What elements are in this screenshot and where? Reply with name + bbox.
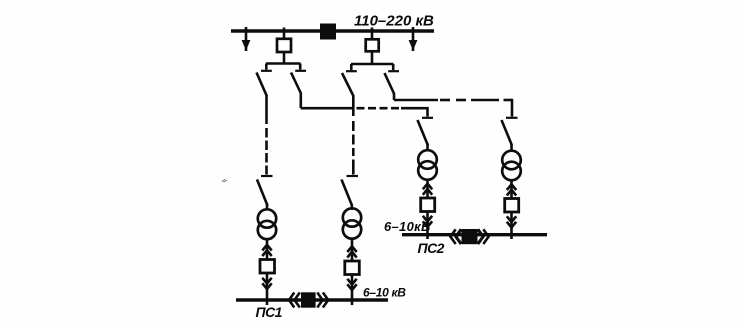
transformer T3 (PS2 left) [418, 150, 437, 180]
drawout contact arrows above breaker Q4 [347, 239, 356, 261]
bus-tie breaker (closed, filled) on HV bus [320, 24, 336, 40]
disconnector QS5 (PS1 left arrival) [257, 176, 273, 210]
drawout contact arrows above breaker Q5 [423, 180, 432, 199]
transformer T1 (PS1 left) [258, 209, 276, 239]
drawout contact arrows below breaker Q5 [423, 212, 432, 240]
svg-text:110–220 кВ: 110–220 кВ [354, 13, 434, 30]
disconnector QS4 (right of Q2) [385, 71, 400, 100]
PS1 LV bus 6-10 kV [236, 298, 388, 301]
scan speck artifact [222, 179, 227, 182]
T-bar node below Q1 [266, 64, 301, 70]
T-bar node below Q2 [351, 64, 394, 70]
disconnector QS1 (left of Q1) [257, 71, 272, 97]
breaker Q1 [277, 28, 291, 64]
breaker Q2 [366, 28, 379, 65]
breaker Q4 (PS1 right, drawout) [345, 261, 360, 275]
disconnector QS2 (right of Q1) [291, 71, 306, 108]
breaker Q5 (PS2 left, drawout) [421, 198, 435, 212]
wire line W4 to PS2 right (dashed overhead line) [394, 99, 512, 117]
svg-text:ПС2: ПС2 [418, 240, 445, 256]
svg-text:6–10кВ: 6–10кВ [384, 219, 431, 234]
wire W1 line to PS1 left (dash-dot overhead line) [265, 96, 268, 175]
svg-text:ПС1: ПС1 [256, 304, 283, 320]
HV bus 110-220 kV [231, 29, 434, 32]
drawout contact arrows below breaker Q3 [262, 273, 271, 305]
drawout contact arrows above breaker Q6 [507, 181, 516, 200]
svg-text:6–10 кВ: 6–10 кВ [363, 286, 406, 300]
drawout contact arrows below breaker Q4 [347, 275, 356, 306]
breaker Q3 (PS1 left, drawout) [260, 260, 275, 274]
bus-section breaker QB1 (closed, drawout) on PS1 bus [289, 292, 328, 307]
transformer T4 (PS2 right) [502, 151, 521, 181]
breaker Q6 (PS2 right, drawout) [505, 199, 519, 213]
feeder arrow right [409, 27, 418, 51]
disconnector QS6 (PS1 right arrival) [342, 176, 359, 210]
disconnector QS3 (left of Q2) [342, 71, 357, 95]
wire line W3 to PS2 left (dashed overhead line) [301, 107, 428, 117]
bus-section breaker QB2 (closed, drawout) on PS2 bus [450, 229, 488, 244]
wire W2 line to PS1 right (dash-dot overhead line) [352, 95, 355, 175]
drawout contact arrows above breaker Q3 [262, 239, 271, 260]
disconnector QS7 (PS2 left arrival) [418, 118, 434, 151]
feeder arrow left [242, 27, 251, 51]
drawout contact arrows below breaker Q6 [507, 212, 516, 239]
disconnector QS8 (PS2 right arrival) [502, 118, 518, 152]
transformer T2 (PS1 right) [343, 208, 361, 238]
PS2 LV bus 6-10 kV [402, 233, 547, 236]
